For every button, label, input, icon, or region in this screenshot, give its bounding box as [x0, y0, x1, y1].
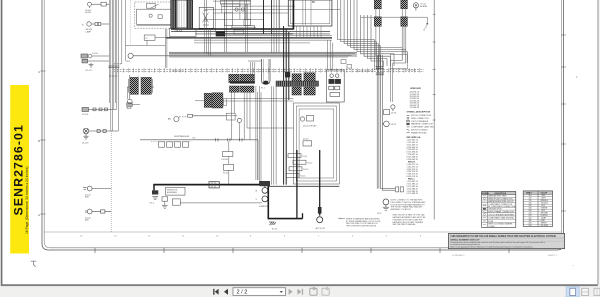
wire color header fill [523, 191, 552, 194]
svg-text:SPLICE CONNECTION: SPLICE CONNECTION [411, 115, 432, 117]
wires from bus into relay box [328, 40, 333, 70]
extra module horizontals [213, 1, 332, 36]
dashed harness bus lower [114, 71, 425, 73]
svg-text:CODES: CODES [488, 226, 495, 228]
bus wire y40 [194, 39, 332, 41]
schematic sheet inner border [44, 0, 561, 248]
connector housing box right [390, 54, 407, 68]
stack A lower [374, 17, 381, 26]
wire color table frame [523, 191, 552, 227]
fuse box row y35 [144, 35, 155, 40]
U tube float blob [263, 81, 268, 85]
small box inside dashed top [147, 4, 156, 9]
svg-text:2 / 2: 2 / 2 [237, 290, 248, 296]
transistor internals [203, 11, 210, 26]
top right connector stack A upper [374, 0, 381, 9]
heavy ground bus [153, 184, 268, 186]
component: lamp with ground y131 [83, 128, 118, 136]
svg-text:1P 2P 1P: 1P 2P 1P [109, 76, 118, 78]
svg-text:WIRE CONNECTOR: WIRE CONNECTOR [411, 118, 429, 120]
component: battery lower [86, 209, 111, 214]
svg-text:57A 15A: 57A 15A [175, 30, 183, 33]
relay assembly box right [326, 70, 344, 102]
svg-text:4X-301: 4X-301 [82, 114, 89, 116]
svg-text:COMPONENT CASE GROUND: COMPONENT CASE GROUND [488, 217, 514, 220]
component: connector circle x130 [128, 75, 133, 104]
view mode page glyph [570, 288, 576, 295]
legend symbol rows [411, 115, 434, 134]
mouse cursor [31, 261, 36, 267]
wire across top right [361, 17, 427, 22]
center nested box inner [299, 109, 334, 178]
connector body hatch marks [179, 1, 184, 28]
connector grid J3 pair [204, 93, 211, 107]
wire J1 to circle [127, 87, 129, 99]
svg-text:7G-14: 7G-14 [300, 176, 305, 178]
svg-text:2K-118: 2K-118 [82, 143, 89, 145]
diode box [223, 152, 233, 157]
relay contact [158, 15, 162, 19]
component: horn relay circle [237, 118, 241, 122]
toolbar first-page button [213, 289, 218, 295]
dash bus wire labels [172, 69, 416, 72]
bus inline connector ticks [108, 66, 119, 68]
bottom border ruler ticks [95, 248, 509, 254]
arrow end mark [426, 22, 428, 24]
legend border ticks [433, 14, 436, 120]
module left edge verticals [205, 0, 211, 56]
svg-text:500: 500 [529, 225, 532, 227]
page left edge [1, 0, 3, 286]
connector bar P2 dark [187, 0, 193, 29]
svg-text:ALARM: ALARM [420, 5, 427, 8]
connector on ground bus [209, 182, 219, 188]
ECM horizontal wires [205, 6, 340, 19]
svg-text:ASSEMBLY LOCATION: ASSEMBLY LOCATION [391, 208, 412, 211]
svg-text:157-968 18: 157-968 18 [410, 107, 420, 109]
page right edge [597, 0, 598, 284]
heavy feed wire second [171, 31, 330, 33]
svg-text:8L-24: 8L-24 [127, 108, 133, 110]
svg-text:SYMBOL DESCRIPTION: SYMBOL DESCRIPTION [407, 112, 431, 114]
page field dropdown arrow [280, 291, 283, 293]
svg-text:SCHEMATIC: SCHEMATIC [452, 254, 465, 257]
J1 side brackets [127, 79, 154, 93]
svg-text:SENR2786-01: SENR2786-01 [11, 124, 25, 215]
toolbar rotate icon 1 disabled [310, 287, 317, 295]
page bottom edge shadow [1, 284, 598, 286]
wires between module and instrument box [272, 0, 280, 53]
schematic sheet outer border [42, 0, 564, 250]
starter box label [166, 187, 185, 195]
second diode box [224, 164, 234, 170]
svg-text:B: B [38, 139, 40, 143]
dashed harness bus upper [114, 68, 425, 70]
component: sender row4 with ground [82, 59, 109, 64]
svg-text:WIRE SIZE: WIRE SIZE [410, 88, 421, 90]
svg-text:SWITCH CONTACT: SWITCH CONTACT [411, 129, 429, 132]
component: solenoid circle on bundle [384, 121, 390, 127]
lower rows labels [300, 156, 312, 178]
right border zone ticks [561, 35, 566, 211]
symbol table header fill [482, 192, 516, 195]
toolbar rotate icon 2 disabled [322, 287, 329, 295]
stack B link wires [402, 9, 406, 63]
dotted wire x130 [129, 0, 131, 45]
wire stub below fuse [146, 40, 148, 45]
bundle bottom corner to connectors [381, 187, 404, 192]
svg-text:SEE THE PARTS MANUAL: SEE THE PARTS MANUAL [393, 223, 416, 226]
component: magneto circle [174, 114, 227, 121]
ground 2 [162, 205, 168, 208]
svg-text:HARNESS CONNECTOR: HARNESS CONNECTOR [411, 123, 433, 126]
small connector boxes mid [341, 60, 346, 64]
view mode button active [566, 287, 579, 297]
svg-text:CIRCUIT BREAKER ASSEMBLY: CIRCUIT BREAKER ASSEMBLY [488, 213, 515, 216]
stack B lower [401, 17, 408, 26]
svg-text:4X-96: 4X-96 [391, 113, 397, 115]
connector bar P1 dark [171, 0, 177, 28]
relay box lower [173, 199, 181, 205]
note paragraph center [346, 217, 381, 227]
diode branch: vertical [228, 141, 230, 151]
svg-text:MAIN BATTERY FEED: MAIN BATTERY FEED [488, 195, 507, 198]
wire color rows text [529, 195, 549, 227]
wire y42.5 [194, 42, 310, 44]
connector grid J2 upper pair [229, 74, 239, 83]
fold line reference numbers [80, 236, 422, 238]
left border zone tick C [38, 213, 45, 217]
inside box lower rows [286, 154, 306, 178]
svg-text:CIRCUIT BREAKER: CIRCUIT BREAKER [411, 120, 429, 123]
long wire to right [180, 202, 262, 204]
relay coil circle [149, 14, 152, 17]
svg-text:ASSEMBLY: ASSEMBLY [167, 191, 178, 194]
wire corner down at x404 [403, 17, 405, 54]
svg-text:LAMP: LAMP [86, 30, 92, 33]
svg-text:HARNESS AND WIRE GROUP: HARNESS AND WIRE GROUP [488, 200, 514, 203]
instrument box internal wires [303, 0, 311, 25]
svg-text:5C: 5C [312, 1, 315, 4]
inside box mid rect [303, 141, 312, 146]
toolbar last-page button disabled [297, 289, 303, 295]
note paragraph right 2 [393, 214, 427, 227]
component: lower solenoid with ground [391, 105, 395, 111]
feed wire third [195, 33, 330, 35]
svg-text:SUPPRESSOR: SUPPRESSOR [174, 136, 190, 138]
nested box right edges fan to connectors [338, 0, 408, 70]
heavy vertical wire right [319, 150, 321, 216]
heavy bus wire y38 [166, 37, 332, 39]
fuse panel box [170, 29, 197, 37]
title small lines [450, 241, 545, 248]
toolbar prev button [224, 289, 228, 295]
link wires to center box [223, 99, 294, 101]
svg-text:HORN: HORN [85, 12, 91, 14]
svg-text:5N-22: 5N-22 [391, 124, 397, 126]
left border zone tick B [38, 139, 45, 143]
suppressor feed wire [140, 139, 190, 141]
suppressor resistor boxes [159, 142, 189, 147]
horizontal fold line [44, 231, 561, 233]
grid above strip right [304, 73, 315, 81]
svg-text:COMPONENT CASE GND: COMPONENT CASE GND [411, 126, 434, 129]
svg-text:SHEET 2: SHEET 2 [548, 255, 558, 257]
component: sender on bundle [384, 110, 390, 115]
yellow bookmark strip [10, 85, 29, 254]
top-center instrument box [288, 0, 332, 26]
legend ref rows [407, 140, 418, 196]
dark junction box [216, 31, 225, 36]
left border zone tick A [38, 70, 45, 74]
legend area border line [433, 0, 435, 220]
svg-text:5C: 5C [168, 119, 171, 121]
stack B wires turn down left [390, 61, 406, 103]
connector body light [177, 1, 187, 28]
grid above strip left [292, 74, 301, 81]
heavy battery wires descending [284, 26, 289, 185]
svg-text:Refer to the appropriate Servi: Refer to the appropriate Service Manual … [450, 245, 533, 248]
svg-text:7G-96: 7G-96 [92, 53, 98, 55]
title block [448, 233, 564, 248]
ECM internal parts [220, 1, 254, 30]
heavy stub up at end [302, 213, 304, 218]
toolbar next button disabled [289, 289, 293, 295]
dashed enclosure box top-left [135, 2, 172, 28]
relay internals [329, 74, 341, 97]
NC wire corner down [257, 140, 259, 180]
fuel gauge U tube [262, 59, 270, 84]
bus left drop [153, 185, 155, 191]
svg-text:-W-: -W- [483, 220, 486, 222]
svg-text:1P 2P 3P: 1P 2P 3P [114, 64, 123, 66]
component: key switch circle top [88, 2, 110, 8]
component: alternator circle [128, 53, 171, 58]
transistor module box [199, 7, 213, 28]
heavy junction wires [263, 0, 265, 34]
svg-text:16 Page, (Dimensions: 34 Inche: 16 Page, (Dimensions: 34 Inches x 24 Inc… [25, 167, 29, 234]
NC wire row [190, 139, 258, 141]
J3 wires right [226, 113, 237, 120]
heavy riser wire [292, 0, 294, 30]
heavy L wire to ground [268, 186, 302, 219]
dark block on right heavy wire [318, 207, 322, 214]
connector grid J1 left half [130, 77, 139, 94]
svg-text:REF WIRE GA: REF WIRE GA [407, 136, 421, 139]
svg-text:7G-12: 7G-12 [307, 163, 312, 165]
center nested box outer [294, 103, 340, 184]
top right connector stack B upper [401, 0, 408, 9]
grid below strip right [304, 87, 315, 95]
component: motor circle bottom [383, 199, 389, 207]
left harness drop wires [165, 29, 167, 68]
svg-text:4X-33: 4X-33 [303, 139, 309, 141]
component: sender row3 [81, 54, 109, 58]
main vertical wire bus [109, 0, 125, 131]
heavy feed wire upper [171, 28, 293, 30]
svg-text:DIODE: DIODE [222, 159, 229, 161]
symbol table glyph column [483, 196, 486, 225]
svg-text:SWITCH PANEL CONNECTOR: SWITCH PANEL CONNECTOR [488, 210, 514, 213]
bundle inline connector ticks [376, 67, 384, 75]
nested box bottom heavy line [268, 185, 339, 187]
svg-text:REEL B38 2G: REEL B38 2G [172, 70, 184, 72]
component: alternator circle bottom [317, 217, 323, 223]
component: backup alarm circle [413, 3, 418, 11]
toolbar page field [233, 288, 286, 296]
bus continuation dotted wire [110, 131, 112, 232]
grid drop wires to NC row [232, 92, 294, 140]
heavy bus wire y34 [225, 33, 293, 35]
svg-text:7G-13: 7G-13 [303, 169, 308, 171]
svg-text:8L-90: 8L-90 [272, 229, 278, 231]
svg-text:ALT 8L-35: ALT 8L-35 [316, 227, 326, 230]
svg-text:7G-11: 7G-11 [302, 156, 307, 158]
J3 side box [224, 99, 227, 106]
wire into J3 [195, 100, 204, 102]
component: gauge circle row2 [82, 22, 110, 27]
center nested box mid [296, 106, 336, 181]
wire color column line [537, 191, 539, 227]
svg-text:SERIAL NUMBERS 96W1-UP: SERIAL NUMBERS 96W1-UP [450, 238, 480, 241]
harness bundle descending [377, 55, 382, 190]
ground [89, 65, 94, 68]
view mode button 2 [582, 288, 589, 295]
svg-text:THE COMPLETE IDENTIFICATION: THE COMPLETE IDENTIFICATION [346, 225, 377, 228]
diode branch to bus [228, 157, 230, 185]
component: battery top [83, 186, 111, 191]
long pin strip connector [276, 81, 319, 86]
symbol table row lines [482, 197, 516, 222]
note leader line [338, 218, 345, 220]
J2 dark bar [230, 81, 255, 83]
starter motor circles [262, 185, 268, 202]
wires descending into bottom connector [256, 86, 276, 185]
cluster inside upper: rect [307, 115, 314, 121]
starter connector dark block [260, 181, 271, 186]
svg-text:C: C [38, 70, 40, 74]
heavy vertical wire mid [296, 150, 298, 218]
symbol table column line [486, 192, 488, 228]
svg-text:AT COMPONENT CONNECTION: AT COMPONENT CONNECTION [488, 205, 516, 208]
wire below relay [137, 24, 172, 26]
svg-text:GROUND STUD: GROUND STUD [488, 209, 502, 211]
connector grid J1 right half [141, 77, 151, 94]
ECM tick row [224, 5, 239, 6]
ground bottom right [383, 207, 389, 210]
svg-text:6 175-986 18: 6 175-986 18 [407, 193, 418, 195]
dash bus pin ticks [118, 68, 420, 72]
stack A link wires [376, 9, 380, 56]
svg-text:THIS SCHEMATIC IS FOR THE 916: THIS SCHEMATIC IS FOR THE 916 WHEEL SERI… [450, 235, 555, 238]
small component under [162, 197, 168, 201]
ECM vertical wires [216, 0, 280, 31]
frame ground hatch [269, 222, 276, 225]
svg-text:A: A [38, 213, 40, 217]
wire y45 left [126, 45, 166, 47]
grid below strip left [292, 87, 301, 95]
symbol table frame [482, 192, 516, 228]
diode diagonal [150, 4, 159, 8]
NC inline connectors [216, 138, 243, 141]
instrument box drop wires [297, 26, 322, 38]
instrument box inner line [290, 0, 329, 24]
svg-text:STARTER: STARTER [259, 205, 269, 208]
note paragraph right 1 [391, 199, 426, 212]
cluster inside upper: circle [300, 117, 304, 121]
relay sub-box inside dashed enclosure [137, 9, 172, 24]
view mode button 3 cut at edge [594, 288, 600, 295]
svg-text:7G-22: 7G-22 [223, 172, 229, 174]
ECM module inner verticals [225, 0, 248, 53]
svg-text:DK GRN: DK GRN [541, 225, 549, 227]
suppressor ladder dashed frame [151, 141, 191, 143]
wire from fuse [155, 37, 171, 39]
ground [83, 136, 88, 139]
component: breaker row y109 [82, 108, 117, 112]
wires left of U tube [248, 61, 262, 83]
svg-text:FUSE: FUSE [488, 221, 494, 223]
svg-text:5N-201 RELAY: 5N-201 RELAY [303, 124, 317, 127]
svg-text:FRAME GROUND: FRAME GROUND [411, 131, 427, 134]
dark junction blob on risers [285, 72, 290, 78]
suppressor feed box [127, 103, 132, 107]
legend wire size rows [410, 92, 420, 109]
legend symbol glyphs [407, 115, 410, 132]
svg-text:2K-117: 2K-117 [86, 70, 93, 72]
wire color row lines [523, 197, 552, 225]
battery disconnect block [152, 190, 158, 194]
J2 lower row [230, 86, 239, 92]
ground under disconnect [152, 197, 158, 200]
symbol table rows text [488, 195, 516, 228]
small junction box 2 [234, 30, 244, 34]
harness trunk band [169, 52, 357, 57]
